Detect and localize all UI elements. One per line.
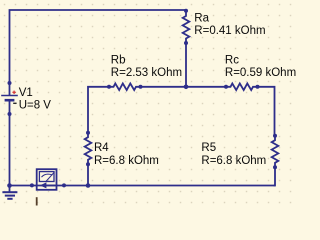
label I (ammeter) — [36, 197, 38, 205]
svg-text:R=6.8 kOhm: R=6.8 kOhm — [94, 155, 159, 167]
resistor R5 — [272, 136, 279, 167]
node ammeter left — [30, 183, 34, 187]
node V1 top — [8, 81, 12, 85]
node R5 bottom — [273, 165, 277, 169]
resistor R4 — [85, 133, 92, 164]
battery plus sign — [12, 91, 15, 94]
node Rb right — [139, 85, 143, 89]
wire R5 bottom to bottom rail — [274, 167, 277, 185]
node R4/bottom rail junction — [86, 183, 91, 188]
node R5 top — [273, 134, 277, 138]
svg-text:V1: V1 — [19, 87, 33, 99]
ammeter I — [37, 169, 57, 190]
wire middle rail right corner down — [258, 87, 275, 136]
wire middle rail left segment — [88, 87, 109, 133]
node V1 bottom — [8, 112, 12, 116]
resistor Ra — [183, 12, 190, 44]
battery minus sign — [13, 102, 16, 104]
svg-text:R5: R5 — [201, 142, 216, 154]
node R4 bottom — [86, 162, 90, 166]
node ammeter right — [62, 183, 66, 187]
node Rc right — [256, 85, 260, 89]
svg-text:R=2.53 kOhm: R=2.53 kOhm — [111, 67, 182, 79]
node ground junction — [7, 183, 12, 188]
wire Ra bottom to middle rail — [185, 43, 187, 87]
svg-text:U=8 V: U=8 V — [19, 100, 52, 112]
ammeter arrow head — [40, 182, 47, 188]
node R4 top — [86, 131, 90, 135]
wire top rail — [10, 10, 187, 83]
svg-text:R=0.41 kOhm: R=0.41 kOhm — [194, 25, 265, 37]
svg-text:R=0.59 kOhm: R=0.59 kOhm — [225, 67, 296, 79]
node Ra/middle rail junction — [184, 85, 189, 90]
ground — [2, 186, 17, 199]
node Ra top — [184, 9, 188, 13]
svg-text:Rb: Rb — [111, 55, 126, 67]
wire bottom rail — [10, 185, 275, 187]
battery V1 — [1, 83, 18, 114]
svg-text:Rc: Rc — [225, 55, 239, 67]
resistor Rc — [226, 84, 258, 91]
svg-text:R4: R4 — [94, 142, 109, 154]
wire R4 bottom lead — [87, 164, 89, 185]
resistor Rb — [109, 84, 141, 91]
wire battery bottom to ground — [9, 114, 11, 186]
svg-text:R=6.8 kOhm: R=6.8 kOhm — [201, 155, 266, 167]
wire Ra top lead — [185, 10, 187, 12]
node Rc left — [224, 85, 228, 89]
svg-text:Ra: Ra — [194, 13, 209, 25]
node Ra bottom — [184, 41, 188, 45]
wire middle rail Rb to Rc — [141, 86, 227, 88]
node Rb left — [107, 85, 111, 89]
node dots — [7, 9, 277, 188]
